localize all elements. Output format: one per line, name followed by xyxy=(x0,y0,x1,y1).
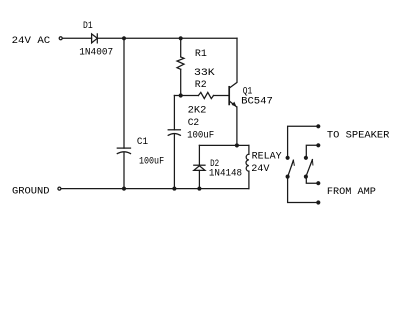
switch1 lever xyxy=(288,160,294,175)
svg-text:1N4148: 1N4148 xyxy=(209,167,242,179)
terminal GROUND xyxy=(58,187,61,190)
relay coil RELAY 24V xyxy=(246,145,249,188)
svg-text:C2: C2 xyxy=(188,117,200,129)
wire collector drop xyxy=(230,38,237,87)
wire terminal to D1 anode xyxy=(63,37,92,39)
svg-text:BC547: BC547 xyxy=(241,96,273,108)
node junction ground / D2 xyxy=(198,187,201,190)
node switch2 lower contact xyxy=(304,175,307,178)
svg-text:TO SPEAKER: TO SPEAKER xyxy=(327,129,390,141)
svg-text:GROUND: GROUND xyxy=(12,185,50,197)
svg-text:R1: R1 xyxy=(195,48,207,60)
svg-text:FROM AMP: FROM AMP xyxy=(327,186,376,198)
node junction top rail / C1 xyxy=(123,37,126,40)
capacitor C2 xyxy=(168,96,180,189)
svg-text:C1: C1 xyxy=(137,136,148,148)
wire emitter drop xyxy=(236,107,238,145)
node junction emitter / relay rail xyxy=(235,144,238,147)
svg-text:R2: R2 xyxy=(195,79,207,91)
wire base rail left segment xyxy=(174,95,198,97)
svg-text:1N4007: 1N4007 xyxy=(79,47,113,59)
resistor R1 xyxy=(177,38,184,95)
wire speaker common rail top xyxy=(288,126,319,158)
wire base rail R2 right to base xyxy=(214,95,230,97)
node junction R1 / R2 / C2 xyxy=(179,94,182,97)
capacitor C1 xyxy=(117,38,130,188)
svg-text:2K2: 2K2 xyxy=(188,105,207,117)
wire switch2 upper stub xyxy=(306,145,318,158)
node contact dot switch2 upper stub xyxy=(317,144,320,147)
terminal 24V AC input xyxy=(59,37,62,40)
svg-text:D1: D1 xyxy=(83,20,93,32)
resistor R2 xyxy=(198,92,213,98)
node switch2 upper contact xyxy=(304,156,307,159)
svg-text:100uF: 100uF xyxy=(139,155,164,167)
node junction ground / C1 xyxy=(123,187,126,190)
node junction ground / C2 xyxy=(173,187,176,190)
diode D2 xyxy=(194,145,205,188)
svg-text:24V: 24V xyxy=(251,163,270,175)
svg-text:RELAY: RELAY xyxy=(252,151,283,163)
diode D1 xyxy=(92,34,98,43)
wire from-amp common rail bottom xyxy=(288,177,319,203)
svg-text:100uF: 100uF xyxy=(187,130,214,142)
node junction top rail / R1 xyxy=(179,37,182,40)
node switch1 upper contact xyxy=(286,156,289,159)
node switch1 lower contact xyxy=(286,175,289,178)
node contact dot switch2 lower stub xyxy=(317,182,320,185)
wire D1 cathode to collector corner (top rail) xyxy=(97,37,237,39)
node contact dot from-amp bottom stub xyxy=(317,201,320,204)
svg-text:33K: 33K xyxy=(194,67,215,79)
wire ground rail xyxy=(61,188,249,190)
svg-text:24V AC: 24V AC xyxy=(12,35,51,47)
transistor Q1 xyxy=(229,87,236,107)
node contact dot speaker top stub xyxy=(317,125,320,128)
wire switch2 lower stub xyxy=(306,177,318,184)
wire relay top rail xyxy=(199,144,249,146)
switch2 lever xyxy=(307,160,313,176)
